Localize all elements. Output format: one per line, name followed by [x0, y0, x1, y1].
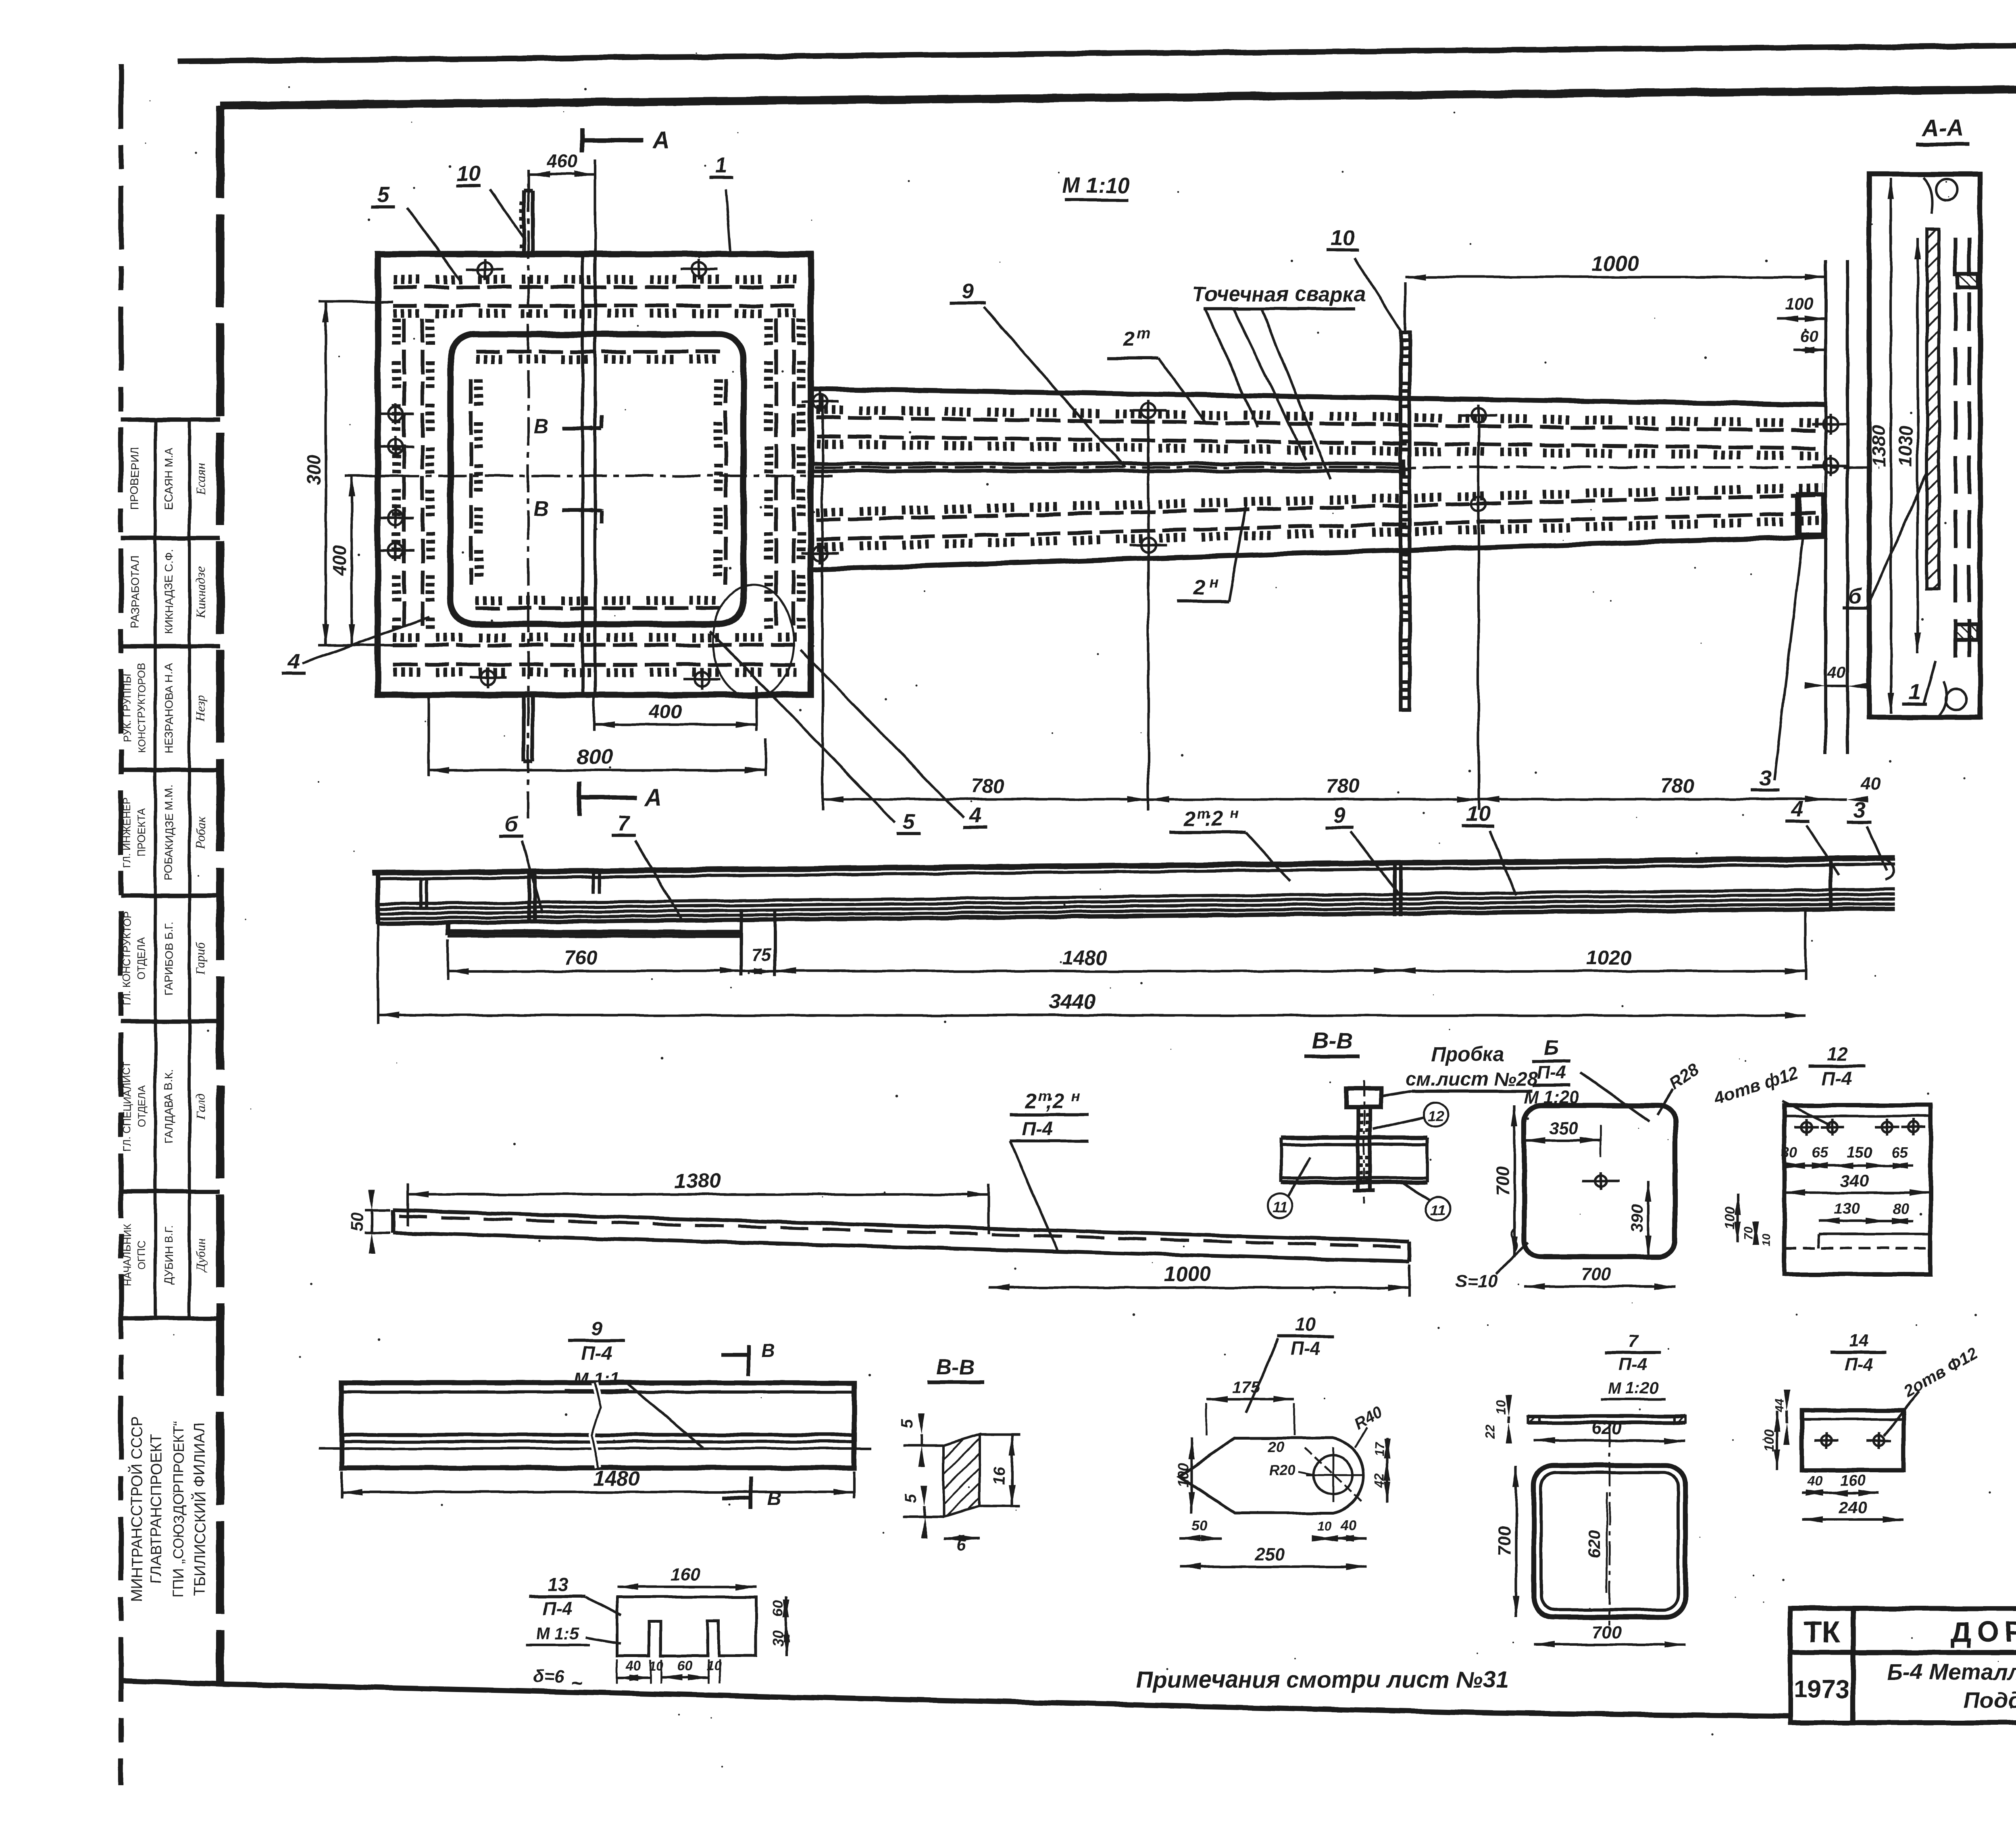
- arm target circles: [802, 391, 1849, 564]
- svg-text:П-4: П-4: [1822, 1068, 1852, 1089]
- svg-text:S=10: S=10: [1456, 1271, 1498, 1291]
- svg-text:60: 60: [677, 1658, 692, 1674]
- section B-B hatched bar: [903, 1434, 1020, 1517]
- plan weld row top inner: [393, 279, 796, 313]
- svg-text:1380: 1380: [674, 1169, 721, 1193]
- svg-text:10: 10: [649, 1659, 663, 1673]
- scale label M1:10: [1062, 173, 1130, 200]
- dimension 40 arm end bottom: [1805, 663, 1868, 689]
- svg-text:ЕСАЯН М.А: ЕСАЯН М.А: [162, 447, 175, 510]
- section B-B label: [927, 1355, 984, 1382]
- dimension 1030 vertical: [1916, 238, 1919, 653]
- detail 14 label: [1831, 1331, 1887, 1374]
- svg-text:9: 9: [1333, 803, 1345, 827]
- svg-text:П-4: П-4: [1537, 1062, 1566, 1083]
- svg-text:65: 65: [1892, 1144, 1908, 1161]
- svg-text:10: 10: [1295, 1314, 1316, 1335]
- svg-text:П-4: П-4: [543, 1598, 573, 1619]
- svg-text:300: 300: [303, 454, 324, 485]
- svg-text:17: 17: [1372, 1442, 1387, 1457]
- svg-text:5: 5: [899, 1419, 916, 1428]
- arm weld rows lower: [816, 488, 1823, 547]
- svg-text:НАЧАЛЬНИК: НАЧАЛЬНИК: [121, 1223, 133, 1286]
- svg-text:780: 780: [971, 775, 1005, 797]
- svg-text:2: 2: [1123, 327, 1135, 351]
- svg-text:7: 7: [1628, 1331, 1639, 1351]
- detail 10 plate outline: [1179, 1438, 1364, 1513]
- svg-text:1973: 1973: [1794, 1676, 1849, 1703]
- dimension 60 arm end: [1793, 328, 1826, 353]
- svg-text:42: 42: [1372, 1473, 1387, 1488]
- svg-text:250: 250: [1255, 1544, 1285, 1564]
- plan weld row around opening bottom: [476, 606, 722, 610]
- svg-text:40: 40: [1827, 663, 1846, 681]
- svg-text:МИНТРАНССТРОЙ СССР: МИНТРАНССТРОЙ СССР: [127, 1416, 146, 1602]
- svg-text:ГЛ. КОНСТРУКТОР: ГЛ. КОНСТРУКТОР: [121, 912, 133, 1006]
- detail 6 dims: [1456, 1105, 1675, 1291]
- svg-text:П-4: П-4: [1619, 1355, 1647, 1374]
- svg-text:В: В: [533, 415, 549, 438]
- svg-text:т: т: [1137, 325, 1150, 342]
- section A-A bottom hook: [1939, 681, 1967, 716]
- svg-text:б: б: [1848, 584, 1862, 608]
- plan weld row right inner: [768, 319, 801, 633]
- svg-text:40: 40: [1861, 774, 1881, 794]
- callout 2t arm: [1107, 325, 1206, 423]
- svg-text:5: 5: [377, 182, 389, 206]
- svg-text:В-В: В-В: [1312, 1028, 1352, 1053]
- svg-text:~: ~: [571, 1671, 582, 1694]
- svg-text:780: 780: [1326, 775, 1360, 797]
- drawing frame top: [220, 85, 2016, 106]
- dimension 780x3 +40: [823, 395, 1881, 811]
- svg-text:12: 12: [1427, 1108, 1443, 1124]
- svg-text:3440: 3440: [1049, 990, 1096, 1014]
- dimension 460: [529, 151, 595, 254]
- svg-text:240: 240: [1838, 1498, 1867, 1517]
- dimension 1000 top: [1405, 252, 1826, 395]
- detail 6 R28: [1657, 1059, 1702, 1115]
- svg-text:3: 3: [1759, 766, 1771, 790]
- svg-text:ОТДЕЛА: ОТДЕЛА: [135, 1085, 148, 1127]
- detail 14 holes: [1814, 1432, 1891, 1449]
- plan horizontal centerline: [345, 475, 833, 477]
- svg-text:РАЗРАБОТАЛ: РАЗРАБОТАЛ: [129, 555, 141, 628]
- svg-text:М 1:5: М 1:5: [536, 1624, 579, 1643]
- svg-text:14: 14: [1849, 1331, 1869, 1351]
- detail 9 label: [564, 1318, 704, 1448]
- callout 2n arm: [1177, 506, 1246, 602]
- svg-text:А-А: А-А: [1921, 115, 1963, 142]
- svg-text:16: 16: [991, 1467, 1008, 1485]
- plan stem bottom (loop 10): [524, 695, 533, 761]
- dimension 800 bottom: [429, 695, 766, 776]
- svg-text:350: 350: [1549, 1118, 1579, 1138]
- section mark B upper: [533, 415, 602, 438]
- bolt detail balloon 12: [1373, 1102, 1447, 1129]
- svg-text:9: 9: [591, 1318, 602, 1339]
- sheet top edge line: [177, 40, 2016, 61]
- dimension 400 left: [329, 476, 393, 645]
- svg-text:100: 100: [1722, 1207, 1738, 1230]
- detail 9 section mark B bottom: [722, 1477, 781, 1509]
- plan weld row bottom inner: [393, 638, 796, 672]
- svg-text:ТК: ТК: [1804, 1615, 1840, 1649]
- svg-text:Точечная сварка: Точечная сварка: [1193, 283, 1366, 306]
- svg-text:700: 700: [1592, 1622, 1622, 1642]
- svg-text:П-4: П-4: [1845, 1355, 1873, 1374]
- svg-text::2: :2: [1204, 807, 1223, 831]
- svg-text:10: 10: [1760, 1234, 1772, 1246]
- bolt detail label probka: [1379, 1043, 1537, 1097]
- svg-text:ГАРИБОВ Б.Г.: ГАРИБОВ Б.Г.: [162, 922, 175, 996]
- bolt detail plates: [1281, 1138, 1427, 1182]
- elevation callout 2t2n: [1169, 805, 1290, 881]
- plan vertical centerline: [527, 183, 529, 819]
- detail 6 plate outline: [1524, 1105, 1675, 1257]
- svg-text:Поддон: П-4.: Поддон: П-4.: [1964, 1687, 2016, 1713]
- section A-A channel dashes: [1956, 238, 1969, 661]
- svg-text:620: 620: [1585, 1530, 1604, 1559]
- plan stem top (loop 10): [522, 190, 533, 254]
- svg-text:ДУБИН В.Г.: ДУБИН В.Г.: [162, 1225, 175, 1285]
- svg-text:65: 65: [1812, 1144, 1828, 1161]
- arm weld rows upper: [816, 410, 1822, 456]
- svg-text:РОБАКИДЗЕ М.М.: РОБАКИДЗЕ М.М.: [162, 785, 175, 880]
- plan target circles: [377, 259, 721, 690]
- drawing frame bottom: [121, 1681, 2016, 1724]
- detail 13 dims: [533, 1565, 789, 1694]
- left title stamp table: [121, 419, 220, 1602]
- svg-text:1480: 1480: [594, 1467, 640, 1490]
- plan weld row around opening top: [476, 350, 722, 353]
- svg-text:П-4: П-4: [1291, 1338, 1320, 1359]
- svg-text:н: н: [1071, 1088, 1080, 1104]
- detail 6 label: [1524, 1036, 1649, 1121]
- plan view pallet plate outline: [378, 254, 811, 695]
- svg-text:В: В: [533, 498, 549, 521]
- section A-A top channel section: [1958, 274, 1978, 288]
- svg-text:160: 160: [671, 1565, 700, 1584]
- detail 7 top flange: [1528, 1416, 1685, 1423]
- svg-text:ПРОЕКТА: ПРОЕКТА: [135, 808, 148, 857]
- dimension 1380 vertical: [1890, 178, 1892, 714]
- svg-text:М 1:20: М 1:20: [1608, 1380, 1658, 1397]
- arm center strip 9 (double line): [811, 459, 1403, 476]
- detail 14 holes label: [1884, 1343, 1981, 1436]
- svg-text:Незр: Незр: [193, 695, 208, 721]
- arm centerline: [814, 466, 1879, 469]
- svg-text:400: 400: [329, 545, 350, 576]
- svg-text:Робак: Робак: [193, 816, 208, 849]
- arm bottom edge: [811, 536, 1826, 569]
- svg-text:В-В: В-В: [936, 1355, 975, 1379]
- svg-text:40: 40: [625, 1658, 641, 1674]
- svg-text:60: 60: [770, 1601, 786, 1617]
- svg-text:10: 10: [706, 1659, 721, 1673]
- svg-text:4: 4: [1791, 797, 1804, 821]
- svg-text:700: 700: [1581, 1264, 1611, 1284]
- svg-text:13: 13: [547, 1574, 568, 1595]
- detail 2t2n dim 1000: [989, 1263, 1409, 1296]
- dimension 400 bottom: [594, 686, 756, 731]
- detail 7 label: [1601, 1331, 1665, 1399]
- svg-text:130: 130: [1834, 1200, 1859, 1217]
- section mark B lower: [533, 498, 602, 523]
- svg-text:;2: ;2: [1045, 1090, 1064, 1113]
- svg-text:Дубин: Дубин: [193, 1238, 208, 1273]
- svg-text:2: 2: [1183, 807, 1195, 831]
- svg-text:см.лист №28: см.лист №28: [1406, 1069, 1537, 1090]
- svg-text:150: 150: [1847, 1144, 1872, 1161]
- svg-text:П-4: П-4: [581, 1343, 612, 1364]
- svg-text:н: н: [1230, 805, 1239, 822]
- plan weld row left inner: [396, 319, 430, 633]
- svg-text:390: 390: [1627, 1205, 1646, 1233]
- detail 12 label: [1809, 1044, 1865, 1089]
- detail 10 label: [1246, 1314, 1334, 1413]
- svg-text:ОТДЕЛА: ОТДЕЛА: [135, 937, 148, 980]
- svg-text:175: 175: [1232, 1378, 1260, 1396]
- svg-text:1: 1: [715, 153, 727, 177]
- sheet left edge line: [119, 65, 123, 1784]
- svg-text:КОНСТРУКТОРОВ: КОНСТРУКТОРОВ: [135, 663, 148, 753]
- bolt detail balloon 11 right: [1403, 1184, 1450, 1221]
- section V-V label above bolt: [1304, 1028, 1360, 1057]
- svg-text:3: 3: [1854, 798, 1866, 822]
- svg-text:5: 5: [903, 810, 915, 834]
- svg-text:δ=6: δ=6: [533, 1667, 564, 1686]
- detail 13 label: [525, 1574, 621, 1645]
- svg-text:Примечания смотри лист №: Примечания смотри лист №31: [1136, 1667, 1509, 1693]
- spot weld label: [1193, 283, 1366, 480]
- svg-text:160: 160: [1840, 1472, 1865, 1489]
- detail 9 bar outline: [319, 1383, 871, 1468]
- detail 13 bracket outline: [617, 1597, 756, 1656]
- svg-text:50: 50: [1191, 1517, 1208, 1534]
- svg-text:2: 2: [1193, 576, 1206, 600]
- svg-text:4: 4: [968, 803, 981, 827]
- title block: [1790, 1609, 2016, 1723]
- svg-text:50: 50: [348, 1213, 367, 1232]
- svg-text:1000: 1000: [1592, 252, 1639, 275]
- detail 7 dims: [1483, 1395, 1685, 1648]
- svg-text:1020: 1020: [1586, 946, 1631, 969]
- detail 9 section mark B top: [722, 1340, 775, 1376]
- svg-text:КИКНАДЗЕ С.Ф.: КИКНАДЗЕ С.Ф.: [162, 549, 175, 635]
- svg-text:40: 40: [1806, 1473, 1822, 1489]
- svg-text:Есаян: Есаян: [193, 463, 208, 495]
- svg-text:ГЛ. СПЕЦИАЛИСТ: ГЛ. СПЕЦИАЛИСТ: [121, 1061, 133, 1152]
- svg-text:22: 22: [1483, 1424, 1497, 1439]
- svg-text:А: А: [652, 127, 670, 154]
- svg-text:ГЛ. ИНЖЕНЕР: ГЛ. ИНЖЕНЕР: [121, 797, 133, 868]
- arm right end lines: [1826, 260, 1847, 754]
- svg-text:7: 7: [618, 811, 631, 836]
- detail 2t2n label: [1010, 1088, 1089, 1250]
- section A-A label: [1916, 115, 1969, 144]
- dimension 300 left: [303, 302, 393, 645]
- svg-text:П-4: П-4: [1022, 1118, 1053, 1140]
- svg-text:1030: 1030: [1895, 425, 1916, 467]
- svg-text:н: н: [1210, 574, 1219, 591]
- svg-text:Гариб: Гариб: [193, 942, 208, 975]
- svg-text:R20: R20: [1269, 1462, 1295, 1478]
- svg-text:11: 11: [1430, 1202, 1445, 1219]
- plan weld row around opening left: [469, 379, 473, 585]
- svg-text:1: 1: [1908, 680, 1920, 704]
- detail 12 holes: [1794, 1119, 1925, 1136]
- svg-text:ДОРОЖНЫЕ ЗНАКИ: ДОРОЖНЫЕ ЗНАКИ: [1950, 1616, 2016, 1649]
- svg-text:40: 40: [1340, 1517, 1357, 1534]
- svg-text:80: 80: [1893, 1200, 1909, 1217]
- svg-text:4: 4: [287, 649, 300, 673]
- svg-text:Кикнадзе: Кикнадзе: [193, 567, 208, 618]
- svg-text:700: 700: [1495, 1526, 1514, 1556]
- bolt detail balloon 11 left: [1268, 1157, 1310, 1218]
- svg-text:10: 10: [1466, 802, 1490, 826]
- svg-text:800: 800: [577, 745, 612, 769]
- svg-text:780: 780: [1660, 775, 1694, 797]
- svg-text:100: 100: [1785, 294, 1813, 313]
- svg-text:620: 620: [1592, 1418, 1622, 1438]
- section mark A bottom: [579, 782, 662, 816]
- drawing frame left: [216, 106, 224, 1685]
- svg-text:30: 30: [1781, 1144, 1797, 1161]
- svg-text:Б: Б: [1544, 1036, 1559, 1060]
- svg-text:60: 60: [1800, 328, 1818, 346]
- svg-text:ПРОВЕРИЛ: ПРОВЕРИЛ: [129, 448, 141, 510]
- detail 12 holes label: [1711, 1063, 1831, 1125]
- svg-text:2: 2: [1025, 1090, 1037, 1113]
- channel 3 at arm end: [1798, 494, 1823, 535]
- svg-text:12: 12: [1826, 1044, 1847, 1065]
- svg-text:Галд: Галд: [193, 1094, 208, 1120]
- svg-text:44: 44: [1773, 1398, 1787, 1413]
- svg-text:А: А: [644, 785, 662, 811]
- svg-text:10: 10: [456, 161, 481, 185]
- svg-text:10: 10: [1317, 1519, 1332, 1533]
- elevation dim 3440: [378, 924, 1806, 1024]
- svg-text:1380: 1380: [1868, 425, 1889, 467]
- svg-text:б: б: [504, 812, 519, 836]
- detail 2t2n strip outline: [393, 1210, 1409, 1261]
- bolt detail bolt: [1347, 1081, 1381, 1204]
- svg-text:ГАЛДАВА В.К.: ГАЛДАВА В.К.: [162, 1069, 175, 1143]
- detail 10 hole: [1304, 1448, 1363, 1503]
- svg-text:5: 5: [902, 1494, 920, 1503]
- svg-text:75: 75: [752, 945, 771, 965]
- section A-A sheet strip hatched: [1927, 229, 1939, 589]
- detail 12 dims: [1722, 1144, 1931, 1246]
- svg-text:760: 760: [564, 946, 598, 969]
- svg-text:20: 20: [1268, 1438, 1284, 1455]
- svg-text:100: 100: [1175, 1463, 1191, 1487]
- svg-text:400: 400: [649, 701, 681, 723]
- section A-A outline: [1869, 174, 1980, 717]
- detail 7 tube outline: [1534, 1423, 1685, 1625]
- svg-text:НЕЗРАНОВА Н.А: НЕЗРАНОВА Н.А: [162, 663, 175, 753]
- svg-text:ТБИЛИССКИЙ ФИЛИАЛ: ТБИЛИССКИЙ ФИЛИАЛ: [190, 1422, 208, 1596]
- svg-text:РУК. ГРУППЫ: РУК. ГРУППЫ: [121, 674, 133, 743]
- svg-text:340: 340: [1841, 1171, 1869, 1190]
- svg-text:70: 70: [1742, 1226, 1756, 1240]
- section A-A bottom channel section: [1956, 624, 1978, 640]
- svg-text:1000: 1000: [1164, 1263, 1211, 1286]
- svg-text:Пробка: Пробка: [1431, 1043, 1504, 1066]
- section B-B dims: [899, 1413, 1015, 1554]
- dimension 100 arm end: [1777, 294, 1826, 322]
- svg-text:ОГПС: ОГПС: [135, 1240, 148, 1269]
- svg-text:100: 100: [1762, 1429, 1777, 1452]
- svg-text:9: 9: [962, 279, 974, 303]
- detail 10 dims: [1175, 1378, 1390, 1570]
- detail 6 center hole: [1595, 1175, 1606, 1186]
- detail 2t2n dim 50: [348, 1189, 390, 1254]
- detail 9 dim 1480: [342, 1467, 854, 1498]
- svg-text:30: 30: [770, 1630, 786, 1646]
- arm top edge: [811, 389, 1826, 405]
- elevation dims 760 75 1480 1020: [448, 911, 1806, 980]
- detail 12 plate: [1784, 1105, 1931, 1274]
- plan weld row around opening right: [724, 379, 727, 585]
- svg-text:М 1:10: М 1:10: [1062, 173, 1130, 198]
- plan inner rounded opening: [450, 334, 744, 624]
- svg-text:1480: 1480: [1062, 946, 1107, 969]
- section A-A top hook: [1923, 177, 1957, 214]
- svg-text:460: 460: [546, 151, 578, 172]
- detail 14 dims: [1762, 1390, 1904, 1523]
- detail 14 plate: [1802, 1411, 1904, 1470]
- elevation main view: [372, 858, 1895, 976]
- plan seam line A-A (double): [583, 254, 595, 695]
- svg-text:ГЛАВТРАНСПРОЕКТ: ГЛАВТРАНСПРОЕКТ: [148, 1434, 165, 1584]
- svg-text:ГПИ „СОЮЗДОРПРОЕКТ“: ГПИ „СОЮЗДОРПРОЕКТ“: [170, 1421, 187, 1597]
- section mark A top: [582, 127, 670, 154]
- corner detail cloud: [713, 585, 793, 698]
- loop bar 10 crossing arm: [1401, 333, 1410, 710]
- svg-text:10: 10: [1331, 226, 1355, 250]
- svg-text:Б-4 Металлическая опалубк: Б-4 Металлическая опалубка.: [1887, 1659, 2016, 1684]
- detail 2t2n dim 1380: [408, 1169, 989, 1234]
- svg-text:11: 11: [1272, 1199, 1287, 1215]
- svg-text:В: В: [761, 1340, 775, 1361]
- svg-text:10: 10: [1494, 1400, 1508, 1415]
- svg-text:700: 700: [1493, 1166, 1513, 1196]
